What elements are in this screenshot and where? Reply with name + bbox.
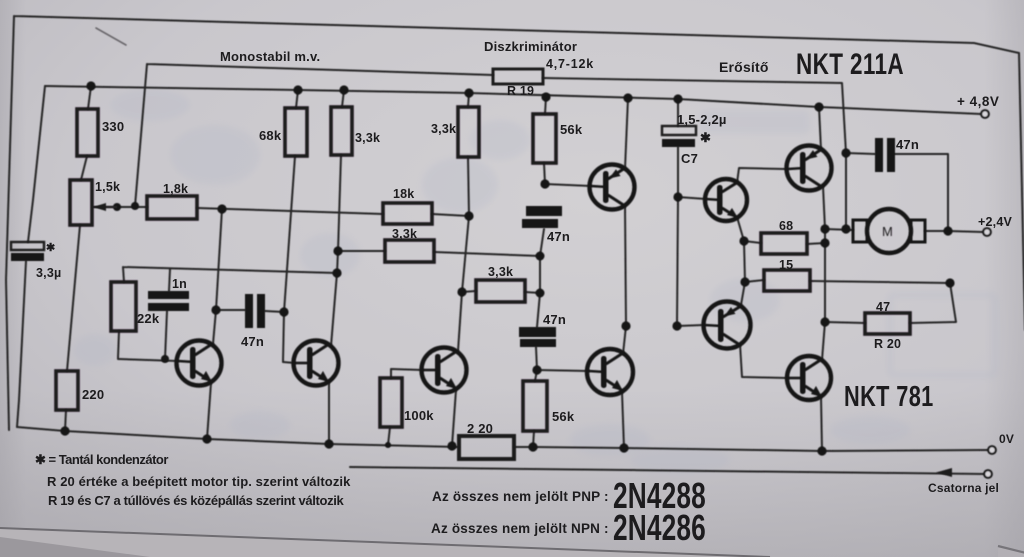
svg-text:100k: 100k [404, 408, 434, 423]
wire 1n bottom lead [165, 311, 167, 359]
wire +24V rail [825, 229, 983, 232]
resistor 1,8k [147, 196, 197, 219]
svg-text:56k: 56k [552, 409, 575, 424]
capacitor 3,3u tantal [11, 242, 44, 261]
wire left rail [28, 86, 45, 242]
svg-text:✱: ✱ [700, 130, 711, 145]
svg-text:3,3µ: 3,3µ [36, 266, 61, 280]
transistor T4 [422, 348, 467, 393]
wire +48V top rail [45, 86, 981, 114]
wire Q2 collector chain [822, 186, 825, 360]
wire T1 collector [213, 209, 222, 344]
svg-text:R 19 és C7 a túllövés és közép: R 19 és C7 a túllövés és középállás szer… [48, 493, 345, 508]
svg-text:+ 4,8V: + 4,8V [957, 94, 999, 109]
wire 330 column [65, 86, 91, 431]
terminal +24V [983, 228, 991, 236]
csatorna arrowhead [936, 468, 952, 477]
resistor 68 [761, 233, 807, 254]
wire Q3 collector to Q4 base [740, 344, 788, 378]
wire Q1 emitter chain [737, 217, 745, 305]
svg-text:✱: ✱ [46, 242, 55, 254]
resistor 220 [56, 371, 78, 410]
wire T1 emitter [207, 383, 211, 439]
transistor Q3 pnp [704, 302, 751, 349]
capacitor C7 [662, 126, 696, 147]
svg-text:Erősítő: Erősítő [719, 59, 769, 75]
wire T6 emitter [622, 392, 624, 448]
svg-text:0V: 0V [999, 432, 1014, 446]
svg-text:R 20: R 20 [874, 337, 901, 351]
svg-text:15: 15 [779, 258, 793, 272]
paper edge bottom right [998, 546, 1024, 557]
svg-text:47n: 47n [896, 137, 919, 152]
wire cap47nA leads [216, 310, 284, 312]
wire csatorna line [350, 467, 985, 474]
wire base row 1.8k [93, 207, 469, 216]
svg-text:47n: 47n [543, 312, 566, 327]
svg-text:R 19: R 19 [507, 84, 534, 98]
svg-text:68k: 68k [259, 128, 282, 143]
svg-text:2 20: 2 20 [467, 421, 493, 436]
svg-text:1,8k: 1,8k [163, 182, 188, 196]
transistor Q2 pnp [787, 146, 832, 191]
transistor T1 [177, 341, 222, 386]
transistor T2 [294, 341, 339, 386]
svg-text:22k: 22k [137, 311, 160, 326]
svg-text:220: 220 [82, 387, 104, 402]
resistor R20 47 [865, 313, 910, 334]
wire 3.3k col1 [331, 90, 344, 346]
svg-text:Diszkriminátor: Diszkriminátor [484, 39, 577, 54]
terminal 0V [988, 446, 996, 454]
motor M [853, 209, 925, 253]
svg-text:3,3k: 3,3k [355, 131, 380, 145]
transistor Q4 [787, 356, 831, 400]
wire C7 column [677, 99, 706, 326]
svg-text:Az összes nem jelölt NPN :: Az összes nem jelölt NPN : [431, 521, 609, 536]
resistor 15 [764, 270, 810, 291]
wire T5 collector emitter [623, 98, 628, 354]
resistor 22k [111, 282, 136, 331]
terminal csatorna [984, 470, 992, 478]
wire T4 base 100k [388, 369, 423, 445]
resistor 100k [380, 378, 402, 427]
svg-text:1n: 1n [172, 277, 187, 291]
resistor 330 [77, 109, 98, 156]
svg-text:NKT 781: NKT 781 [844, 381, 934, 413]
pencil crease mark [96, 28, 126, 45]
wire T1 base [118, 359, 178, 361]
wire T2 emitter [328, 381, 330, 444]
resistor 56k upper [533, 114, 556, 163]
wire 15 leads [745, 280, 950, 283]
wire 0V bottom rail [17, 427, 989, 451]
ghost print-through marks [73, 89, 995, 474]
svg-text:56k: 56k [560, 122, 583, 137]
svg-text:M: M [882, 224, 893, 239]
ink solid shapes [60, 81, 995, 477]
svg-text:68: 68 [779, 219, 793, 233]
svg-text:330: 330 [102, 119, 124, 134]
svg-text:Monostabil m.v.: Monostabil m.v. [220, 49, 320, 64]
capacitor 47n B [522, 206, 562, 228]
capacitor 1n [148, 291, 189, 311]
potentiometer 1,5k [70, 180, 92, 225]
svg-text:2N4286: 2N4286 [613, 507, 706, 548]
capacitor 47n A [245, 294, 265, 328]
paper edge bottom left [0, 528, 770, 557]
transistor Q1 [705, 179, 747, 221]
wire 3.3k col2 [458, 93, 469, 351]
capacitor 47n top right [875, 138, 895, 172]
svg-text:C7: C7 [681, 151, 698, 166]
svg-text:Csatorna jel: Csatorna jel [928, 481, 999, 495]
wire Q2 emitter up [819, 107, 821, 150]
svg-text:3,3k: 3,3k [488, 265, 513, 279]
resistor 68k [285, 108, 307, 156]
svg-text:✱ = Tantál kondenzátor: ✱ = Tantál kondenzátor [35, 452, 168, 467]
wire T4 emitter [452, 390, 456, 446]
svg-text:NKT 211A: NKT 211A [796, 47, 904, 81]
transistors [177, 146, 926, 401]
svg-text:18k: 18k [393, 187, 414, 201]
wire R20 leads [825, 283, 956, 323]
wire left rail lower [17, 261, 26, 427]
wire 22k bottom lead [118, 331, 119, 358]
svg-text:47n: 47n [241, 334, 264, 349]
resistor 3,3k horizontal 3 [476, 280, 525, 302]
wire 22k 1n top [123, 267, 337, 291]
svg-text:Az összes nem jelölt PNP :: Az összes nem jelölt PNP : [432, 489, 609, 504]
wire 3.3k h2 leads [338, 251, 540, 256]
transistor T6 [587, 349, 633, 395]
svg-text:+2,4V: +2,4V [978, 215, 1012, 229]
svg-text:1,5-2,2µ: 1,5-2,2µ [677, 112, 727, 127]
svg-text:1,5k: 1,5k [95, 180, 120, 194]
resistor R19 [493, 69, 543, 84]
resistor 3,3k vertical 2 [458, 107, 479, 157]
wire 68 leads [744, 241, 825, 244]
svg-text:3,3k: 3,3k [431, 122, 456, 136]
wire 3.3k h3 leads [462, 291, 540, 293]
wire 68k column [283, 90, 298, 363]
svg-text:3,3k: 3,3k [392, 227, 417, 241]
svg-text:4,7-12k: 4,7-12k [546, 57, 594, 71]
wire monostabil loop [135, 64, 846, 229]
resistor 18k [383, 203, 432, 224]
potentiometer arrow [93, 203, 117, 211]
svg-text:R 20 értéke a beépitett motor: R 20 értéke a beépitett motor tip. szeri… [47, 474, 351, 489]
wire Q4 emitter [821, 396, 822, 451]
resistor 56k lower [523, 381, 547, 431]
svg-text:47n: 47n [547, 229, 570, 244]
svg-text:47: 47 [876, 300, 890, 314]
terminal +48V [981, 110, 989, 118]
transistor T5 pnp [590, 165, 635, 210]
wire Q1 collector to Q2 base [737, 168, 786, 183]
resistor 3,3k horizontal 2 [385, 240, 434, 262]
resistor 3,3k vertical 1 [331, 107, 352, 155]
capacitor 47n C [519, 327, 556, 347]
frame border [6, 16, 1024, 430]
resistor 2 20 [459, 436, 514, 459]
wire 56k column [533, 97, 591, 447]
wire 47n top cap leads [846, 153, 948, 231]
